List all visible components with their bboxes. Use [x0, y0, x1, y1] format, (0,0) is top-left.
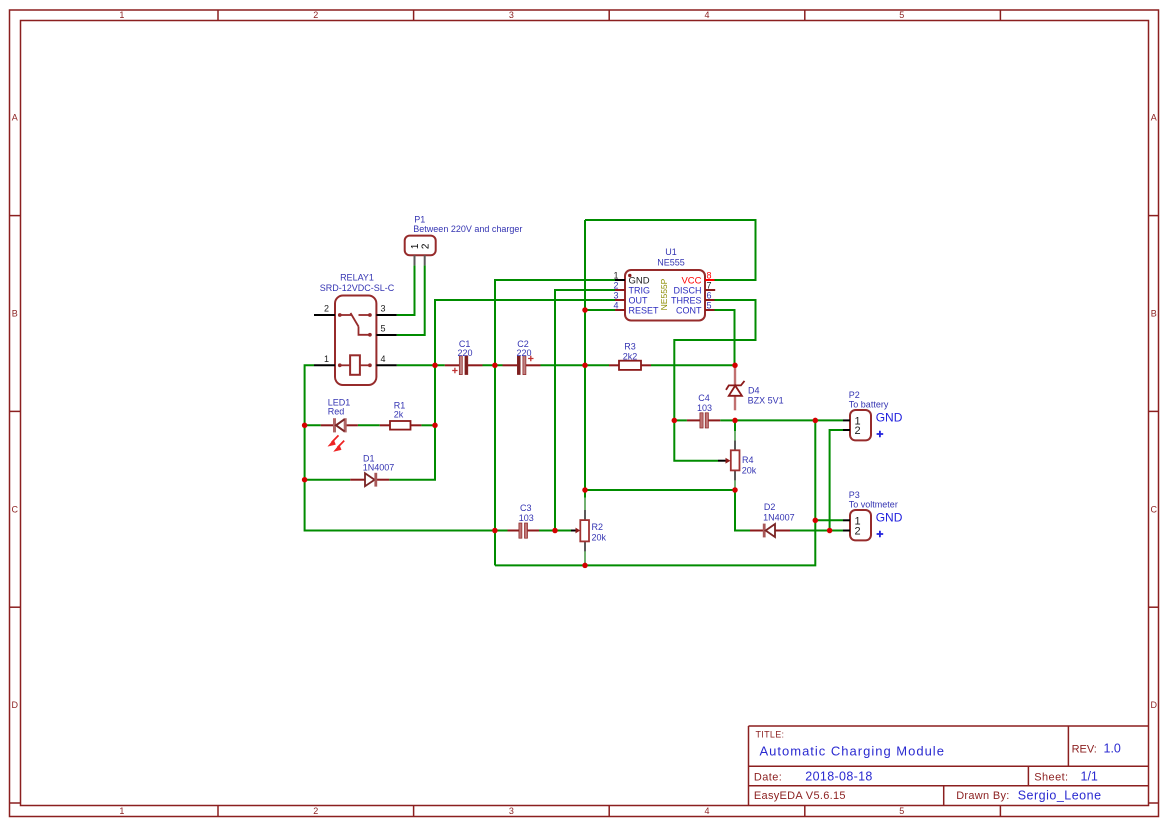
label D2 name	[764, 502, 776, 512]
label R1 name	[394, 401, 406, 411]
junction dot C3 left	[492, 528, 498, 534]
svg-text:C: C	[12, 504, 19, 514]
svg-text:TITLE:: TITLE:	[756, 730, 785, 740]
svg-text:C: C	[1151, 504, 1158, 514]
label R3 name	[624, 342, 636, 352]
label P1 note Between 220V and charger	[413, 224, 522, 234]
svg-text:103: 103	[519, 513, 534, 523]
svg-text:Date:: Date:	[754, 772, 782, 784]
junction dot OUT net on main rail	[432, 363, 438, 369]
capacitor C4 103	[687, 413, 720, 428]
wire R3 to D4 node	[651, 364, 735, 366]
svg-text:4: 4	[704, 10, 709, 20]
border column numbers top	[119, 10, 904, 20]
border row tick marks right	[1149, 216, 1159, 803]
svg-text:Automatic Charging Module: Automatic Charging Module	[760, 744, 945, 759]
svg-text:4: 4	[613, 301, 618, 311]
wire P1 pin 2 down to relay pin 5	[397, 265, 425, 335]
title block Sheet label	[1034, 772, 1068, 784]
junction dot D1 left	[302, 477, 308, 483]
svg-text:A: A	[1151, 113, 1157, 123]
label U1 value NE555	[657, 258, 685, 268]
label RELAY1 value SRD-12VDC-SL-C	[320, 283, 395, 293]
connector P3	[843, 510, 871, 540]
svg-text:1: 1	[119, 10, 124, 20]
capacitor C1 polarized 220	[445, 356, 483, 375]
svg-text:20k: 20k	[742, 466, 757, 476]
resistor R1 2k	[380, 421, 422, 430]
net label plus at P3	[877, 531, 884, 538]
svg-text:Drawn By:: Drawn By:	[956, 790, 1009, 802]
svg-text:SRD-12VDC-SL-C: SRD-12VDC-SL-C	[320, 283, 395, 293]
wire C1 to C2	[483, 364, 503, 366]
svg-text:220: 220	[457, 348, 472, 358]
wire RESET pin 4 stub wire	[585, 309, 615, 311]
junction dot RESET pin4	[582, 307, 588, 313]
svg-text:B: B	[1151, 309, 1157, 319]
diode D2 1N4007	[750, 524, 790, 538]
svg-text:P1: P1	[414, 214, 425, 224]
border row letters left	[12, 113, 19, 710]
svg-text:GND: GND	[876, 410, 903, 424]
junction dot LED1 left	[302, 423, 308, 429]
junction dot R4 bottom	[732, 487, 738, 493]
svg-text:1N4007: 1N4007	[763, 513, 795, 523]
svg-text:6: 6	[707, 291, 712, 301]
label C1 name	[459, 339, 471, 349]
title block grid lines	[749, 726, 1149, 806]
border column tick marks bottom	[218, 806, 1000, 817]
net label plus at P2	[877, 431, 884, 438]
svg-text:R3: R3	[624, 342, 636, 352]
wire OUT net from U1 pin 3 down to D1	[389, 300, 615, 480]
label P2 note To battery	[849, 399, 889, 409]
border column tick marks top	[218, 10, 1000, 21]
junction dot P2 pin1 riser	[813, 418, 819, 424]
resistor R3 2k2	[609, 361, 651, 370]
relay RELAY1	[314, 296, 397, 386]
wire D4 node down to R4 top	[734, 420, 736, 431]
svg-text:2: 2	[854, 425, 860, 437]
label P3 note To voltmeter	[849, 499, 898, 509]
svg-text:R4: R4	[742, 455, 754, 465]
title block Date label	[754, 772, 782, 784]
svg-text:U1: U1	[665, 247, 677, 257]
svg-text:BZX 5V1: BZX 5V1	[748, 396, 784, 406]
svg-text:RELAY1: RELAY1	[340, 273, 374, 283]
wire bottom rail and right riser to P2 pin 1	[495, 420, 815, 565]
svg-text:Between 220V and charger: Between 220V and charger	[413, 224, 522, 234]
junction dot R3 right D4 top CONT	[732, 363, 738, 369]
wire GND net from U1 pin 1 down left side	[495, 280, 615, 565]
wire CONT pin 5 to R3-D4 node	[715, 310, 735, 365]
svg-text:2018-08-18: 2018-08-18	[805, 770, 872, 784]
label R4 value 20k	[742, 466, 757, 476]
wire LED1 left lead connection	[305, 424, 321, 426]
svg-text:1: 1	[613, 271, 618, 281]
svg-text:1: 1	[324, 354, 329, 364]
label C2 value 220	[516, 348, 531, 358]
label D2 value 1N4007	[763, 513, 795, 523]
svg-text:7: 7	[707, 281, 712, 291]
label R1 value 2k	[394, 409, 404, 419]
wire C3 to R2 wiper	[539, 530, 571, 532]
svg-text:8: 8	[707, 271, 712, 281]
potentiometer R4 20k	[718, 431, 740, 490]
connector P2	[843, 410, 871, 440]
wire RESET net vertical x=585 upper	[584, 220, 586, 498]
svg-text:5: 5	[899, 806, 904, 816]
label C4 name	[698, 393, 710, 403]
wire R1 to OUT net vertical	[421, 424, 435, 426]
junction dot RESET net on main rail	[582, 363, 588, 369]
connector P1	[405, 236, 436, 266]
svg-text:RESET: RESET	[629, 306, 660, 316]
capacitor C2 polarized 220	[503, 356, 541, 375]
wire LED1 to R1	[358, 424, 380, 426]
title block TITLE label	[756, 730, 785, 740]
svg-text:Sheet:: Sheet:	[1034, 772, 1068, 784]
svg-text:Red: Red	[328, 406, 345, 416]
junction dot P2 pin2 riser at D2	[827, 528, 833, 534]
diode D1 1N4007	[350, 473, 389, 487]
wire R2 top node to R4 bottom node	[585, 489, 735, 491]
diode LED1 red	[321, 418, 358, 451]
svg-text:EasyEDA V5.6.15: EasyEDA V5.6.15	[754, 790, 846, 802]
label C4 value 103	[697, 403, 712, 413]
label P2 name	[849, 390, 860, 400]
wire C4 left lead connection	[674, 419, 687, 421]
svg-text:D2: D2	[764, 502, 776, 512]
label LED1 name	[328, 398, 351, 408]
svg-text:2k: 2k	[394, 409, 404, 419]
title block EasyEDA version	[754, 790, 846, 802]
svg-text:1.0: 1.0	[1104, 742, 1121, 756]
net label GND at P3	[876, 510, 903, 524]
border row tick marks left	[10, 216, 21, 803]
label C2 name	[517, 339, 529, 349]
svg-text:5: 5	[381, 324, 386, 334]
svg-text:GND: GND	[876, 510, 903, 524]
title block REV label	[1072, 744, 1097, 756]
title block Drawn By label	[956, 790, 1009, 802]
junction dot R2 top	[582, 487, 588, 493]
svg-text:2: 2	[313, 10, 318, 20]
wire P3 pin 1 stub wire	[815, 519, 843, 521]
svg-text:3: 3	[613, 291, 618, 301]
svg-text:3: 3	[509, 806, 514, 816]
svg-text:4: 4	[704, 806, 709, 816]
title block title value Automatic Charging Module	[760, 744, 945, 759]
wire R4 bottom down to D2	[735, 490, 750, 531]
wire relay pin 1 down left side to C3	[305, 365, 508, 530]
label D1 value 1N4007	[363, 463, 395, 473]
svg-text:4: 4	[381, 354, 386, 364]
svg-text:THRES: THRES	[671, 296, 702, 306]
op-amp timer U1 NE555 body	[613, 270, 715, 321]
label R2 value 20k	[592, 533, 607, 543]
junction dot C4 left THRES wiper	[672, 418, 678, 424]
svg-text:2: 2	[313, 806, 318, 816]
wire D1 left lead connection	[305, 479, 351, 481]
svg-text:OUT: OUT	[629, 296, 649, 306]
wire VCC top loop from pin 8 of U1 to RESET net vertical	[585, 220, 756, 280]
svg-text:CONT: CONT	[676, 306, 702, 316]
capacitor C3 103	[508, 523, 540, 538]
svg-text:3: 3	[509, 10, 514, 20]
svg-text:220: 220	[516, 348, 531, 358]
wire D2 to P3 pin 2	[790, 530, 843, 532]
svg-text:REV:: REV:	[1072, 744, 1097, 756]
title block Date value 2018-08-18	[805, 770, 872, 784]
label R3 value 2k2	[623, 352, 638, 362]
svg-text:A: A	[12, 113, 18, 123]
wire C2 to R3	[541, 364, 610, 366]
svg-text:To battery: To battery	[849, 399, 889, 409]
label C1 value 220	[457, 348, 472, 358]
wire THRES pin 6 loop down to C4 node	[674, 300, 755, 420]
svg-text:C3: C3	[520, 503, 532, 513]
svg-text:D4: D4	[748, 385, 760, 395]
wire C4 right lead to D4 node	[720, 419, 735, 421]
svg-text:D: D	[1151, 700, 1158, 710]
svg-text:2: 2	[324, 304, 329, 314]
title block REV value 1.0	[1104, 742, 1121, 756]
svg-text:20k: 20k	[592, 533, 607, 543]
svg-text:2: 2	[854, 526, 860, 538]
svg-text:C4: C4	[698, 393, 710, 403]
title block Drawn By value Sergio_Leone	[1018, 789, 1102, 803]
svg-text:DISCH: DISCH	[673, 286, 701, 296]
label D4 name	[748, 385, 760, 395]
svg-text:To voltmeter: To voltmeter	[849, 499, 898, 509]
net label GND at P2	[876, 410, 903, 424]
wire RESET net vertical x=585 lower below R2	[584, 564, 586, 566]
label LED1 value Red	[328, 406, 345, 416]
svg-text:R2: R2	[592, 522, 604, 532]
label RELAY1 name	[340, 273, 374, 283]
svg-text:NE555: NE555	[657, 258, 685, 268]
svg-text:1: 1	[119, 806, 124, 816]
wire relay pin 4 to C1	[397, 364, 445, 366]
wire C4 rail to P2 pin 1	[735, 419, 843, 421]
svg-text:2: 2	[613, 281, 618, 291]
junction dot C4 right D4 bottom	[732, 418, 738, 424]
svg-text:5: 5	[707, 301, 712, 311]
title block Sheet value 1/1	[1081, 770, 1098, 784]
svg-text:1N4007: 1N4007	[363, 463, 395, 473]
wire P1 pin 1 down to relay pin 3	[397, 265, 415, 315]
label P1 name	[414, 214, 425, 224]
junction dot TRIG C3 right	[552, 528, 558, 534]
label D1 name	[363, 454, 375, 464]
label D4 value BZX 5V1	[748, 396, 784, 406]
diode D4 zener BZX 5V1	[726, 368, 745, 411]
svg-text:Sergio_Leone: Sergio_Leone	[1018, 789, 1102, 803]
label C3 value 103	[519, 513, 534, 523]
junction dot P3 pin1 riser	[813, 518, 819, 524]
label R2 name	[592, 522, 604, 532]
border row letters right	[1151, 113, 1158, 710]
svg-text:2: 2	[420, 243, 431, 249]
svg-text:D: D	[12, 700, 19, 710]
wire C4 node down to R4 wiper	[674, 420, 718, 460]
border column numbers bottom	[119, 806, 904, 816]
svg-text:NE555P: NE555P	[659, 278, 669, 310]
svg-text:3: 3	[381, 304, 386, 314]
wire P2 pin 2 down to P3 pin 2 net	[830, 430, 843, 531]
svg-text:2k2: 2k2	[623, 352, 638, 362]
label R4 name	[742, 455, 754, 465]
junction dot GND net on main rail	[492, 363, 498, 369]
svg-text:5: 5	[899, 10, 904, 20]
junction dot R1 right	[432, 423, 438, 429]
potentiometer R2 20k	[571, 498, 589, 565]
wire TRIG net from U1 pin 2 down to C3 node	[555, 290, 615, 531]
label U1 name	[665, 247, 677, 257]
label P3 name	[849, 490, 860, 500]
svg-text:1/1: 1/1	[1081, 770, 1098, 784]
label C3 name	[520, 503, 532, 513]
svg-text:103: 103	[697, 403, 712, 413]
junction dot bottom rail RESET net	[582, 563, 588, 569]
svg-text:TRIG: TRIG	[629, 286, 651, 296]
svg-text:B: B	[12, 309, 18, 319]
